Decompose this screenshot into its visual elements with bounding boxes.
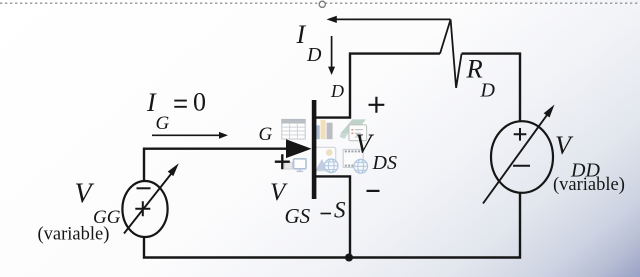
wire: V_DD bottom rail and left riser bbox=[144, 193, 520, 258]
svg-text:D: D bbox=[330, 81, 344, 101]
current arrow I_D (down into drain) bbox=[328, 36, 335, 75]
current annotation arrow (top, pointing left) bbox=[327, 16, 451, 23]
placeholder icon: chart bbox=[316, 120, 333, 139]
JFET channel bar bbox=[312, 100, 317, 199]
placeholder dashed top border bbox=[0, 2, 640, 4]
label V_DS with plus and minus bbox=[355, 97, 397, 191]
placeholder icon: monitor bbox=[294, 159, 306, 172]
resistor R_D (break symbol) bbox=[440, 19, 462, 87]
selection handle bbox=[319, 1, 325, 7]
svg-text:GS: GS bbox=[285, 204, 311, 228]
placeholder icon: smartart bbox=[340, 119, 367, 140]
placeholder icon: video with globe bbox=[343, 149, 367, 173]
svg-text:S: S bbox=[334, 198, 346, 223]
svg-text:G: G bbox=[259, 124, 273, 145]
wire: source stub to bottom rail bbox=[316, 176, 350, 257]
label R_D bbox=[466, 54, 496, 102]
svg-text:V: V bbox=[75, 178, 95, 209]
label V_DD (variable) bbox=[553, 131, 625, 195]
junction node bbox=[345, 254, 353, 262]
placeholder icon: table bbox=[282, 119, 305, 139]
svg-text:G: G bbox=[156, 113, 170, 134]
voltage source V_DD bbox=[483, 105, 555, 204]
svg-text:D: D bbox=[306, 44, 322, 66]
label V_GS with plus bbox=[270, 154, 311, 228]
current arrow I_G bbox=[152, 132, 228, 139]
wire: drain to top rail bbox=[316, 54, 440, 118]
label I_G = 0 bbox=[146, 88, 206, 135]
label I_D bbox=[296, 20, 323, 66]
svg-text:(variable): (variable) bbox=[38, 225, 110, 245]
voltage source V_GG bbox=[122, 163, 178, 237]
svg-text:DS: DS bbox=[372, 152, 397, 174]
wire: V_GG top to gate bbox=[144, 149, 291, 182]
wire: top rail to V_DD bbox=[462, 54, 520, 122]
svg-text:0: 0 bbox=[193, 88, 206, 117]
label S with tick bbox=[321, 198, 347, 223]
label V_GG (variable) bbox=[38, 178, 121, 244]
placeholder icon: stock image square bbox=[285, 162, 293, 169]
svg-text:(variable): (variable) bbox=[553, 175, 625, 195]
placeholder icon: picture with globe bbox=[315, 147, 338, 172]
svg-text:I: I bbox=[296, 20, 307, 49]
svg-text:D: D bbox=[480, 80, 496, 102]
JFET gate arrow bbox=[286, 139, 312, 158]
